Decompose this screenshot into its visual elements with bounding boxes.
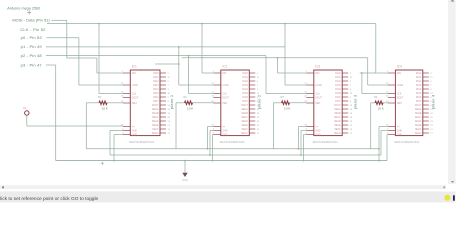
svg-text:MAX7219/MAX7221: MAX7219/MAX7221: [394, 140, 419, 144]
svg-text:DIG2: DIG2: [153, 81, 159, 83]
svg-text:SEGC: SEGC: [415, 117, 422, 119]
svg-text:p0 - Pin 53: p0 - Pin 53: [21, 35, 43, 40]
svg-text:SEGF: SEGF: [334, 129, 341, 131]
svg-text:plano 2: plano 2: [256, 94, 261, 109]
svg-text:DIG3: DIG3: [335, 85, 341, 87]
svg-text:DIG7: DIG7: [242, 101, 248, 103]
svg-text:SEGG: SEGG: [415, 133, 422, 135]
svg-text:MOSI - Data (Pin 51): MOSI - Data (Pin 51): [12, 18, 50, 23]
svg-text:DIG2: DIG2: [335, 81, 341, 83]
svg-text:DIG0: DIG0: [242, 73, 248, 75]
svg-text:SEGE: SEGE: [415, 125, 422, 127]
UI: vertical scrollbar: [448, 0, 456, 184]
svg-text:SEGA: SEGA: [334, 108, 341, 111]
svg-text:Arduino mega 2560: Arduino mega 2560: [7, 6, 40, 10]
svg-text:LOAD: LOAD: [315, 84, 322, 87]
resistor R2 10K: [184, 95, 195, 111]
wire: p1 net to IC2 LOAD and IC3 LOAD: [46, 23, 306, 85]
svg-text:SEGC: SEGC: [152, 117, 159, 119]
wire: MOSI-Data net to IC1 DIN: [52, 20, 123, 73]
svg-text:DIG6: DIG6: [242, 97, 248, 99]
svg-text:IC3: IC3: [315, 64, 320, 68]
wire: R4 ISET wiring: [371, 103, 388, 149]
svg-text:DIG3: DIG3: [242, 85, 248, 87]
svg-text:IC2: IC2: [222, 64, 227, 68]
svg-text:SEGD: SEGD: [241, 121, 248, 123]
svg-text:SEGB: SEGB: [415, 113, 422, 115]
wire: p2 net to IC2 CLK and IC3 CLK: [46, 55, 306, 94]
svg-text:ISET: ISET: [315, 103, 321, 105]
svg-text:SEGD: SEGD: [415, 121, 422, 123]
svg-text:DIN: DIN: [397, 73, 401, 75]
svg-text:SEGE: SEGE: [241, 125, 248, 127]
svg-text:DIN: DIN: [132, 73, 136, 75]
svg-text:GND: GND: [315, 134, 320, 136]
wire: p3 net down and along bottom to IC4 LOAD: [46, 65, 388, 162]
svg-text:R3: R3: [281, 95, 285, 99]
svg-text:DOUT: DOUT: [132, 97, 139, 99]
node: module name plano 2: [256, 94, 261, 109]
svg-text:SEGB: SEGB: [241, 113, 248, 115]
IC IC1: MAX7219 LED driver: [121, 64, 171, 144]
svg-text:DOUT: DOUT: [415, 105, 422, 107]
svg-text:DIG1: DIG1: [335, 77, 341, 79]
IC IC4: MAX7219 LED driver: [386, 64, 434, 144]
svg-text:SEGA: SEGA: [241, 108, 248, 111]
node: module name plano 4: [430, 94, 435, 109]
svg-text:10 K: 10 K: [378, 107, 385, 111]
wire: V+ from connector to IC1 V+: [27, 115, 123, 126]
svg-text:CLK - Pin 52: CLK - Pin 52: [20, 27, 46, 32]
svg-text:DIG5: DIG5: [335, 93, 341, 95]
svg-text:DIG3: DIG3: [416, 85, 422, 87]
svg-text:DIG5: DIG5: [416, 93, 422, 95]
svg-text:DIG6: DIG6: [335, 97, 341, 99]
wire: R2 ISET wiring: [176, 103, 213, 149]
svg-text:plano 3: plano 3: [352, 94, 357, 109]
UI: horizontal scrollbar: [0, 185, 446, 189]
wire: R1 ISET wiring: [86, 103, 123, 149]
svg-text:X1: X1: [23, 106, 27, 110]
svg-text:DIG4: DIG4: [335, 89, 341, 91]
svg-text:MAX7219/MAX7221: MAX7219/MAX7221: [129, 140, 154, 144]
svg-text:DOUT: DOUT: [397, 97, 404, 99]
svg-text:IC4: IC4: [397, 64, 402, 68]
wire: bottom bus A (V+/ISET pullup): [86, 127, 380, 150]
svg-text:SEGF: SEGF: [152, 129, 159, 131]
svg-text:DIN: DIN: [222, 73, 226, 75]
svg-text:p1 - Pin 49: p1 - Pin 49: [21, 44, 43, 49]
svg-text:LOAD: LOAD: [132, 84, 139, 87]
svg-text:CLK: CLK: [397, 93, 402, 95]
svg-text:DIG2: DIG2: [242, 81, 248, 83]
svg-text:10 K: 10 K: [102, 107, 109, 111]
svg-text:DIG2: DIG2: [416, 81, 422, 83]
wire: p0 net to IC1 LOAD: [46, 38, 122, 85]
IC IC3: MAX7219 LED driver: [304, 64, 353, 144]
wire: chain bus to IC3 DIN and IC4 LOAD: [182, 57, 388, 85]
svg-text:GND: GND: [132, 130, 137, 132]
UI: status indicator dark: [453, 195, 455, 200]
svg-text:DIG4: DIG4: [153, 89, 159, 91]
svg-text:SEGF: SEGF: [241, 129, 248, 131]
svg-text:DOUT: DOUT: [222, 97, 229, 99]
wire: bottom bus B (GND): [110, 131, 388, 156]
svg-text:DIG5: DIG5: [242, 93, 248, 95]
svg-text:GND: GND: [397, 130, 402, 132]
svg-text:DOUT: DOUT: [315, 97, 322, 99]
wire: R3 ISET wiring: [274, 103, 307, 149]
svg-text:LOAD: LOAD: [397, 84, 404, 87]
svg-text:SEGB: SEGB: [152, 113, 159, 115]
svg-text:DOUT: DOUT: [241, 105, 248, 107]
wire: chain hop from IC1 DOUT region: [155, 63, 180, 65]
svg-text:CLK: CLK: [222, 93, 227, 95]
svg-text:10 K: 10 K: [187, 107, 194, 111]
resistor R4 10K: [374, 95, 385, 111]
svg-text:CLK: CLK: [132, 93, 137, 95]
svg-text:DIG4: DIG4: [242, 89, 248, 91]
svg-text:MAX7219/MAX7221: MAX7219/MAX7221: [313, 140, 338, 144]
svg-text:CLK: CLK: [315, 93, 320, 95]
node: module name plano 1: [169, 94, 174, 109]
svg-text:DIG7: DIG7: [153, 101, 159, 103]
svg-text:GND: GND: [132, 134, 137, 136]
svg-text:SEGG: SEGG: [241, 133, 248, 135]
UI: status indicator yellow: [444, 195, 450, 201]
svg-text:SEGE: SEGE: [334, 125, 341, 127]
svg-text:SEGA: SEGA: [415, 108, 422, 111]
svg-text:SEGB: SEGB: [334, 113, 341, 115]
svg-text:GND: GND: [222, 134, 227, 136]
svg-text:DIG5: DIG5: [153, 93, 159, 95]
svg-text:SEGD: SEGD: [334, 121, 341, 123]
svg-text:GND: GND: [315, 130, 320, 132]
wire: CLK/data top bus with drops to all ICs: [47, 23, 388, 94]
svg-text:DIG1: DIG1: [416, 77, 422, 79]
svg-text:SEGC: SEGC: [241, 117, 248, 119]
node: junction cross: [101, 162, 104, 165]
svg-text:R1: R1: [98, 95, 102, 99]
svg-text:SEGG: SEGG: [152, 133, 159, 135]
svg-text:DIG0: DIG0: [335, 73, 341, 75]
svg-text:DOUT: DOUT: [334, 105, 341, 107]
svg-text:IC1: IC1: [132, 64, 137, 68]
svg-text:10 K: 10 K: [284, 107, 291, 111]
connector X1 (supply pin): [23, 106, 29, 115]
svg-text:SEGE: SEGE: [152, 125, 159, 127]
svg-text:ISET: ISET: [397, 103, 403, 105]
resistor R1 10K: [98, 95, 109, 111]
svg-text:R4: R4: [374, 95, 378, 99]
svg-text:SEGG: SEGG: [334, 133, 341, 135]
svg-text:DIG0: DIG0: [416, 73, 422, 75]
svg-text:MAX7219/MAX7221: MAX7219/MAX7221: [220, 140, 245, 144]
IC IC2: MAX7219 LED driver: [211, 64, 260, 144]
svg-text:GND: GND: [397, 134, 402, 136]
svg-text:DIN: DIN: [315, 73, 319, 75]
svg-text:GND: GND: [222, 130, 227, 132]
svg-text:R2: R2: [184, 95, 188, 99]
svg-text:ISET: ISET: [222, 103, 228, 105]
svg-text:DIG0: DIG0: [153, 73, 159, 75]
svg-text:Click to set reference point o: Click to set reference point or click GO…: [0, 196, 99, 202]
svg-text:ISET: ISET: [132, 103, 138, 105]
svg-text:LOAD: LOAD: [222, 84, 229, 87]
svg-text:SEGA: SEGA: [152, 108, 159, 111]
svg-text:SEGC: SEGC: [334, 117, 341, 119]
svg-text:DIG7: DIG7: [416, 101, 422, 103]
node: Arduino mega 2560 label block: [7, 6, 50, 67]
svg-text:DIG1: DIG1: [242, 77, 248, 79]
svg-text:DIG1: DIG1: [153, 77, 159, 79]
svg-text:p3 - Pin 47: p3 - Pin 47: [21, 62, 43, 67]
svg-text:plano 1: plano 1: [169, 94, 174, 109]
svg-text:DIG3: DIG3: [153, 85, 159, 87]
UI: status bar: [0, 192, 455, 203]
svg-text:plano 4: plano 4: [430, 94, 435, 109]
svg-text:DOUT: DOUT: [152, 105, 159, 107]
svg-text:DIG7: DIG7: [335, 101, 341, 103]
svg-text:SEGD: SEGD: [152, 121, 159, 123]
svg-text:SEGF: SEGF: [415, 129, 422, 131]
svg-text:DIG4: DIG4: [416, 89, 422, 91]
wire: bottom bus C (GND 2): [57, 135, 388, 162]
svg-text:DIG6: DIG6: [416, 97, 422, 99]
resistor R3 10K: [281, 95, 292, 111]
ground GND: [182, 160, 188, 182]
svg-text:GND: GND: [182, 179, 188, 182]
node: module name plano 3: [352, 94, 357, 109]
svg-text:p2 - Pin 48: p2 - Pin 48: [21, 53, 43, 58]
svg-text:DIG6: DIG6: [153, 97, 159, 99]
